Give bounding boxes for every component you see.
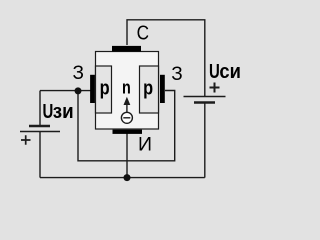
wire: battery GB1 minus plate up to gate node <box>39 91 41 126</box>
drain contact bar (top) <box>112 46 141 52</box>
battery GB1 plus sign <box>21 135 31 144</box>
transistor body outer rect <box>96 52 159 130</box>
gate contact bar left <box>90 75 95 103</box>
wire: left gate horizontal <box>40 90 91 92</box>
battery GB1 (Uzi) short plate - <box>29 125 50 127</box>
svg-text:зи: зи <box>53 101 74 123</box>
battery GB2 (Usi) short plate - <box>194 101 215 103</box>
gate contact bar right <box>160 75 165 103</box>
svg-text:p: p <box>143 78 153 100</box>
svg-text:С: С <box>137 22 150 45</box>
wire bottom bus <box>40 177 205 179</box>
svg-text:n: n <box>122 78 131 98</box>
svg-text:p: p <box>100 78 110 100</box>
svg-text:З: З <box>73 63 84 84</box>
wire: gate U loop <box>78 91 175 161</box>
svg-text:И: И <box>138 134 152 156</box>
wire: source down to bus <box>126 133 128 178</box>
p region left <box>96 66 112 113</box>
source contact bar (bottom) <box>113 130 143 134</box>
svg-text:U: U <box>43 101 54 123</box>
svg-text:си: си <box>219 61 241 83</box>
wire: bus up to battery GB1 plus plate <box>39 132 41 178</box>
wire: right battery bottom to bus <box>204 103 206 178</box>
junction dot left gate <box>75 87 82 94</box>
battery GB2 (Usi) long plate + <box>184 96 226 98</box>
battery GB1 (Uzi) long plate + <box>20 131 60 133</box>
electron arrow <box>126 104 128 113</box>
battery GB2 plus sign <box>210 83 220 93</box>
junction dot bottom bus <box>124 174 131 181</box>
svg-text:З: З <box>171 64 182 85</box>
electron circle with minus <box>121 112 132 123</box>
p region right <box>140 66 159 113</box>
svg-text:U: U <box>209 61 220 83</box>
wire top: drain to right battery <box>127 20 205 96</box>
